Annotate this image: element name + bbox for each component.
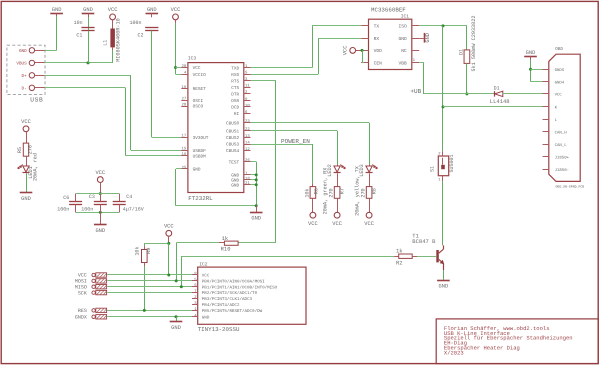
svg-text:CBUS3: CBUS3 <box>226 143 240 148</box>
svg-text:18: 18 <box>245 176 250 181</box>
svg-text:GND: GND <box>52 7 62 13</box>
svg-text:POWER_EN: POWER_EN <box>281 138 310 145</box>
svg-text:10n: 10n <box>74 20 83 26</box>
svg-text:C3: C3 <box>89 194 95 200</box>
svg-text:IC2: IC2 <box>199 261 208 267</box>
svg-text:MI0805K400R-10: MI0805K400R-10 <box>116 18 122 62</box>
svg-text:R7: R7 <box>340 188 346 194</box>
svg-text:15: 15 <box>181 147 186 152</box>
svg-text:USBDM: USBDM <box>193 154 207 159</box>
svg-text:RX: RX <box>374 36 380 42</box>
svg-text:C2: C2 <box>138 32 144 38</box>
svg-text:VBB: VBB <box>399 61 408 67</box>
svg-text:11: 11 <box>245 84 250 89</box>
svg-text:GND: GND <box>171 325 181 331</box>
svg-text:21: 21 <box>245 181 250 186</box>
svg-text:SCK: SCK <box>78 290 87 296</box>
svg-text:SUS001: SUS001 <box>449 154 455 172</box>
svg-text:C6: C6 <box>63 195 69 201</box>
svg-text:R10: R10 <box>221 246 231 253</box>
svg-text:BC847 B: BC847 B <box>412 238 436 245</box>
svg-text:10k: 10k <box>135 246 141 255</box>
svg-text:GND: GND <box>21 196 31 202</box>
svg-text:GND: GND <box>83 7 93 13</box>
svg-text:16: 16 <box>181 152 186 157</box>
svg-text:USBDP: USBDP <box>193 149 207 154</box>
svg-text:20mA, red: 20mA, red <box>33 153 39 181</box>
svg-text:DTR: DTR <box>231 93 239 98</box>
svg-text:100n: 100n <box>57 206 69 212</box>
svg-text:VCC: VCC <box>21 119 31 125</box>
svg-text:D-: D- <box>22 86 27 91</box>
svg-text:J1850+: J1850+ <box>555 156 570 161</box>
svg-text:OSCO: OSCO <box>193 105 204 110</box>
svg-text:GND: GND <box>202 315 210 320</box>
svg-text:4µ7/16V: 4µ7/16V <box>123 206 144 212</box>
svg-text:VCCIO: VCCIO <box>193 73 207 78</box>
svg-text:OSCI: OSCI <box>193 99 204 104</box>
svg-text:RXD: RXD <box>231 73 239 78</box>
svg-text:NC: NC <box>401 48 407 54</box>
svg-text:5k1 500mW C2933822: 5k1 500mW C2933822 <box>471 15 477 71</box>
svg-text:MC33660BEF: MC33660BEF <box>371 7 406 14</box>
svg-text:RTS: RTS <box>231 79 239 84</box>
svg-text:RESET: RESET <box>193 87 207 92</box>
svg-text:TXD: TXD <box>231 66 239 71</box>
svg-text:R8: R8 <box>372 188 378 194</box>
svg-text:12: 12 <box>245 147 250 152</box>
svg-text:13: 13 <box>245 134 250 139</box>
svg-text:22: 22 <box>245 127 250 132</box>
svg-text:LL4148: LL4148 <box>490 98 510 105</box>
svg-text:X/2023: X/2023 <box>444 349 464 356</box>
svg-text:J1850-: J1850- <box>555 168 569 173</box>
svg-text:1k: 1k <box>222 235 229 242</box>
svg-text:23: 23 <box>245 119 250 124</box>
svg-text:VCC: VCC <box>164 224 174 230</box>
svg-text:VCC: VCC <box>108 7 118 13</box>
svg-text:CAN_L: CAN_L <box>555 143 568 148</box>
svg-text:IC3: IC3 <box>188 55 197 61</box>
svg-text:DCD: DCD <box>231 106 239 111</box>
svg-text:USB: USB <box>30 97 43 104</box>
svg-text:270: 270 <box>28 145 34 154</box>
svg-text:R2: R2 <box>396 260 403 267</box>
svg-text:GND: GND <box>251 216 261 222</box>
svg-text:14: 14 <box>245 140 250 145</box>
svg-text:D1: D1 <box>494 85 500 91</box>
svg-text:VBUS: VBUS <box>16 61 27 66</box>
svg-text:GNDS: GNDS <box>555 68 565 73</box>
svg-text:GND: GND <box>425 33 431 43</box>
svg-text:R9: R9 <box>146 248 152 254</box>
svg-text:17: 17 <box>181 134 186 139</box>
svg-text:26: 26 <box>245 158 250 163</box>
svg-text:C1: C1 <box>76 32 82 38</box>
svg-text:ISO: ISO <box>399 24 408 30</box>
svg-text:VCC: VCC <box>202 274 210 279</box>
svg-text:LED3: LED3 <box>359 164 365 176</box>
svg-text:VDD: VDD <box>374 48 383 54</box>
svg-text:GND: GND <box>439 283 449 289</box>
svg-text:27: 27 <box>181 97 186 102</box>
svg-text:GNDX: GNDX <box>75 315 87 321</box>
svg-text:CBUS0: CBUS0 <box>226 122 240 127</box>
svg-text:OBD_9B-GRND_PCB: OBD_9B-GRND_PCB <box>556 184 585 188</box>
svg-text:CBUS4: CBUS4 <box>226 149 240 154</box>
svg-text:GND: GND <box>19 49 27 54</box>
svg-text:19: 19 <box>181 85 186 90</box>
svg-text:RES: RES <box>78 308 87 314</box>
svg-text:GND: GND <box>526 50 536 56</box>
svg-text:VCC: VCC <box>342 46 348 56</box>
svg-text:GND4: GND4 <box>555 81 565 86</box>
svg-text:CBUS1: CBUS1 <box>226 130 240 135</box>
svg-text:CEN: CEN <box>374 61 383 67</box>
svg-text:GND: GND <box>95 228 105 234</box>
svg-text:28: 28 <box>181 102 186 107</box>
svg-text:IC1: IC1 <box>401 13 410 19</box>
svg-text:TEST: TEST <box>229 160 240 165</box>
svg-text:TINY13-20SSU: TINY13-20SSU <box>198 326 240 333</box>
svg-text:270: 270 <box>361 188 367 197</box>
svg-text:RI: RI <box>234 112 240 117</box>
svg-text:VCC: VCC <box>332 221 342 227</box>
svg-text:OBD: OBD <box>555 47 563 52</box>
svg-text:100n: 100n <box>129 20 141 26</box>
svg-text:VCC: VCC <box>171 7 181 13</box>
svg-text:CAN_H: CAN_H <box>555 131 568 136</box>
svg-text:GND: GND <box>147 7 157 13</box>
svg-text:3V3OUT: 3V3OUT <box>193 136 209 141</box>
svg-text:CBUS2: CBUS2 <box>226 136 240 141</box>
svg-text:VCC: VCC <box>308 221 318 227</box>
svg-text:R5: R5 <box>17 147 23 153</box>
svg-text:20: 20 <box>181 64 186 69</box>
svg-text:VCC: VCC <box>95 170 105 176</box>
svg-text:100n: 100n <box>81 206 93 212</box>
svg-text:D1: D1 <box>458 49 464 55</box>
svg-text:C4: C4 <box>126 194 132 200</box>
svg-text:FT232RL: FT232RL <box>188 195 213 202</box>
svg-text:VCC: VCC <box>193 66 201 71</box>
svg-text:270: 270 <box>329 188 335 197</box>
svg-text:VCC: VCC <box>364 221 374 227</box>
svg-text:CTS: CTS <box>231 86 239 91</box>
svg-text:GND: GND <box>193 168 201 173</box>
svg-text:GND: GND <box>399 36 408 42</box>
svg-text:10k: 10k <box>304 188 310 197</box>
svg-text:S1: S1 <box>429 166 435 172</box>
svg-text:D+: D+ <box>22 74 28 79</box>
svg-text:1k: 1k <box>396 248 403 255</box>
svg-text:+UB: +UB <box>410 88 421 95</box>
svg-text:25: 25 <box>181 165 186 170</box>
svg-text:10: 10 <box>245 103 250 108</box>
svg-text:R6: R6 <box>314 188 320 194</box>
svg-text:VCC: VCC <box>555 93 563 98</box>
svg-text:TX: TX <box>374 24 380 30</box>
svg-text:DSR: DSR <box>231 99 239 104</box>
svg-text:GND: GND <box>231 183 239 188</box>
svg-text:L1: L1 <box>102 40 108 46</box>
svg-text:LED2: LED2 <box>327 164 333 176</box>
